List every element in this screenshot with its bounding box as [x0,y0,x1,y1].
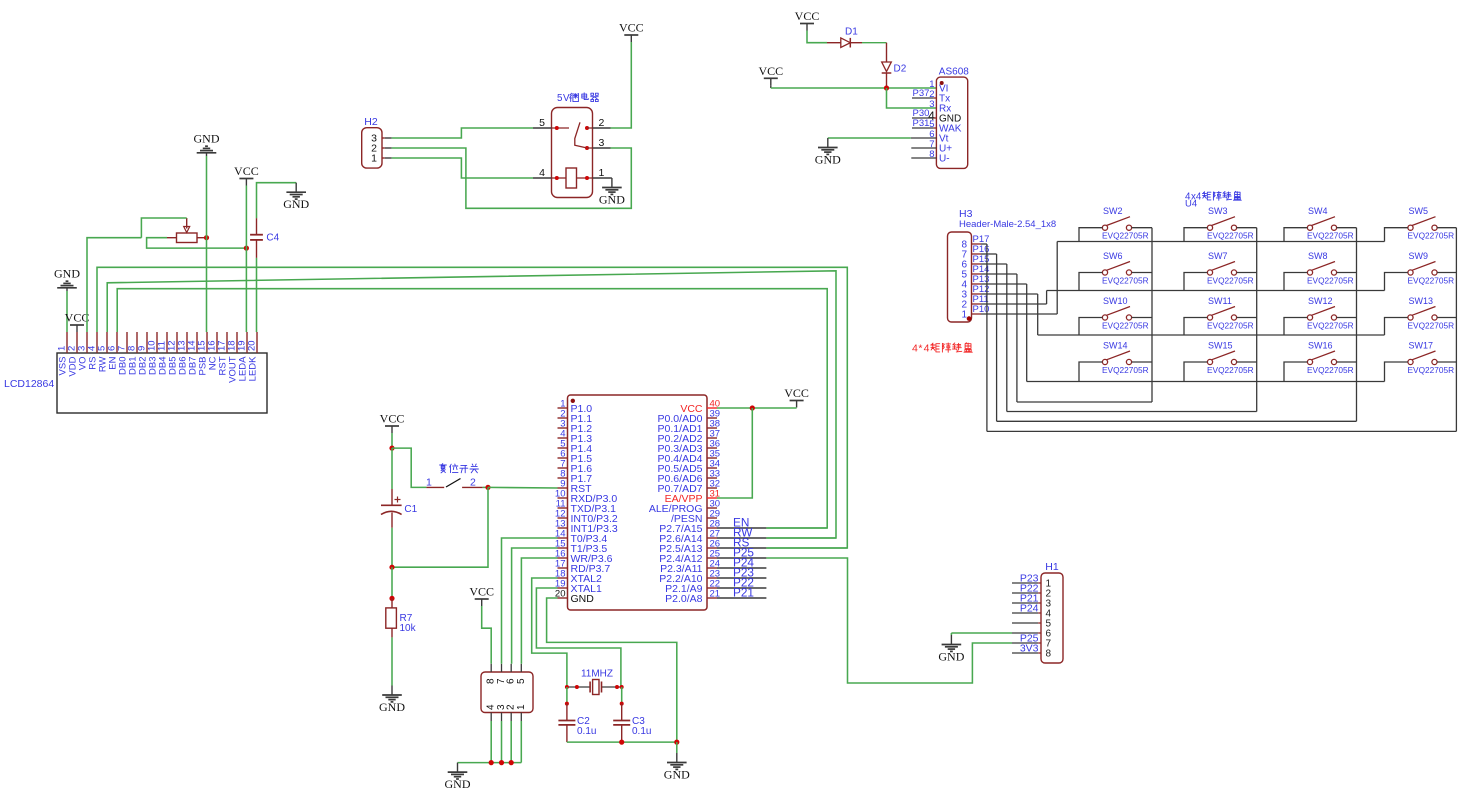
wire EN net (LCD pin6 to MCU P2.7) [117,289,827,528]
wire RS vertical [766,547,847,549]
svg-text:D2: D2 [894,64,907,75]
LCD pin 20 LEDK stub [256,332,258,353]
wire VCC to AS608 pin1 VI [770,85,772,88]
power VCC (header pin8) [481,599,483,606]
svg-text:EVQ22705R: EVQ22705R [1102,321,1149,331]
wire VCC to header pin8 [482,606,492,664]
MCU pin 22 P2.1/A9 stub [707,587,717,589]
svg-text:Header-Male-2.54_1x8: Header-Male-2.54_1x8 [959,219,1056,230]
wire wiper to LCD pin3 VO [87,238,141,332]
svg-text:EVQ22705R: EVQ22705R [1207,321,1254,331]
svg-text:SW10: SW10 [1103,296,1128,306]
relay coil [566,168,577,188]
MCU pin 15 T1/P3.5 stub [558,547,568,549]
wire D2 cathode to VI net [886,73,888,88]
svg-text:GND: GND [283,197,309,211]
wire Vt to GND [828,137,911,139]
wire P16 stair [981,253,997,255]
svg-text:H2: H2 [364,116,378,128]
svg-text:SW6: SW6 [1103,251,1123,261]
LCD pin 8 DB1 stub [136,332,138,353]
AS608 pin6 stub Vt [911,137,937,139]
wire P25 net to H1 pin7 [766,558,1012,683]
AS608 pin5 stub + net label P31 [912,127,934,129]
MCU pin 29 /PESN stub [707,517,717,519]
svg-text:GND: GND [815,152,841,166]
svg-text:EVQ22705R: EVQ22705R [1207,276,1254,286]
H1 pin 3 stub [1012,602,1038,604]
column bus verticals [1151,228,1153,402]
header top pin 6 stub [510,664,512,672]
MCU pin 25 P2.4/A12 stub [707,557,717,559]
wires header bottom pins to GND [490,721,492,763]
LCD12864 module U? body [57,353,267,413]
svg-text:2: 2 [599,117,605,129]
MCU pin 27 P2.6/A14 stub [707,537,717,539]
MCU pin 26 P2.5/A13 stub [707,547,717,549]
wire VCC to diode D1 [807,31,827,43]
wire SW10 right to column bus [1132,317,1152,319]
switch SW11 [1207,315,1212,320]
wire P17 to col4 [986,244,988,431]
svg-text:3: 3 [599,137,605,149]
svg-text:VCC: VCC [234,164,259,178]
switch SW8 [1307,270,1312,275]
svg-text:SW8: SW8 [1308,251,1328,261]
LCD pin 2 VDD stub [76,332,78,353]
LCD pin 1 VSS stub [66,332,68,353]
diode D1 [841,38,851,48]
wire H2.1 to relay pin4 [392,158,533,178]
H3 pin 1 stub [972,313,982,315]
H1 pin 6 stub [1012,632,1038,634]
MCU net stub P21 [717,597,766,599]
wire down to R7 [391,567,393,598]
wire P10 stair [981,313,1057,315]
svg-text:EVQ22705R: EVQ22705R [1207,231,1254,241]
svg-text:GND: GND [54,266,80,280]
svg-text:11MHZ: 11MHZ [581,669,613,680]
MCU pin 30 ALE/PROG stub [707,507,717,509]
power VCC (pin2 VDD) [76,325,78,332]
wire VCC to LCD pin19 LEDA [245,186,247,333]
wire RST junction down to R7/C1 node [392,487,488,567]
C1 bottom lead [391,513,393,528]
H3 pin 2 stub [972,303,982,305]
wire SW11 right to column bus [1237,317,1257,319]
wire P14 to col1 [1016,274,1018,402]
MCU pin 7 P1.6 stub [558,467,568,469]
svg-text:5: 5 [516,678,527,684]
svg-text:SW2: SW2 [1103,206,1123,216]
header top pin 7 stub [501,664,503,672]
column bottom wires [1017,401,1152,403]
svg-text:SW15: SW15 [1208,341,1233,351]
junction C1/R7 [389,565,394,570]
svg-text:EVQ22705R: EVQ22705R [1307,321,1354,331]
svg-text:VCC: VCC [758,64,783,78]
wire SW6 left to row bus [1079,273,1102,291]
svg-text:SW5: SW5 [1409,206,1429,216]
wire SW8 right to column bus [1337,272,1357,274]
wire P14 stair [981,273,1017,275]
ground GND (R7) [391,686,393,696]
svg-text:VCC: VCC [380,412,405,426]
svg-text:GND: GND [599,192,625,206]
svg-text:VCC: VCC [65,311,90,325]
svg-text:C1: C1 [404,504,417,515]
AS608 pin7 stub [911,147,936,149]
H3 pin 5 stub [972,273,982,275]
MCU net stub RW [717,537,766,539]
svg-text:1: 1 [961,310,967,321]
svg-text:V: V [563,93,570,104]
wire RS net (LCD pin4 to MCU P2.6) [97,267,847,548]
H3 pin 8 stub [972,243,982,245]
wire pot left to VCC net [147,238,247,248]
power VCC (MCU pin40) [796,401,798,408]
svg-text:1: 1 [516,704,527,710]
wire VCC down to C1 [391,433,393,448]
LCD pin 18 VOUT stub [236,332,238,353]
LCD pin 12 DB5 stub [176,332,178,353]
svg-text:SW14: SW14 [1103,341,1128,351]
wire R7 to GND [391,637,393,685]
junction header gnd pins [489,760,494,765]
wire XTAL2 to crystal left [532,578,567,687]
svg-text:P2.0/A8: P2.0/A8 [665,593,703,605]
wire to reset switch [392,448,426,487]
wire caps gnd bus [567,741,677,743]
relay pin 1 stub [593,177,611,179]
svg-text:D1: D1 [845,27,858,38]
LCD pin 13 DB6 stub [186,332,188,353]
svg-text:0.1u: 0.1u [577,726,596,737]
wire MCU GND pin20 [547,598,677,742]
wire EN vertical [766,527,827,529]
svg-text:GND: GND [194,131,220,145]
svg-text:SW4: SW4 [1308,206,1328,216]
H2 pin 3 stub [382,137,385,139]
wire P15 to col2 [1006,264,1008,412]
wire SW13 left to row bus [1385,318,1408,336]
resistor R7 [391,598,393,608]
switch pin1 lead [426,486,444,488]
MCU pin 34 P0.5/AD5 stub [707,467,717,469]
header bottom pin 3 stub [501,713,503,722]
svg-text:U4: U4 [1185,199,1197,210]
wire P17 stair [981,243,987,245]
pot right lead [197,237,207,239]
svg-text:P37: P37 [913,88,930,99]
relay pin 4 stub [533,177,552,179]
svg-text:GND: GND [938,649,964,663]
svg-text:10k: 10k [400,623,417,634]
LCD pin 5 RW stub [106,332,108,353]
relay pin 3 stub [593,147,611,149]
MCU pin 2 P1.1 stub [558,417,568,419]
H1 pin 4 stub [1012,612,1038,614]
switch SW9 [1408,270,1413,275]
power VCC (reset) [391,426,393,433]
wire WR to header pin5 [521,558,557,664]
wire SW6 right to column bus [1132,272,1152,274]
svg-text:GND: GND [571,593,595,605]
MCU pin 4 P1.3 stub [558,437,568,439]
svg-text:EVQ22705R: EVQ22705R [1307,365,1354,375]
switch SW15 [1207,359,1212,364]
wire SW5 left to row bus [1385,228,1408,242]
svg-text:EVQ22705R: EVQ22705R [1102,276,1149,286]
LCD pin 4 RS stub [96,332,98,353]
MCU net stub P22 [717,587,766,589]
diode D2 [882,62,892,72]
svg-text:SW17: SW17 [1409,341,1434,351]
svg-text:4: 4 [539,167,545,179]
wire SW10 left to row bus [1079,318,1102,336]
switch blade [446,479,461,488]
wire P16 to col3 [996,254,998,421]
MCU net stub EN [717,527,766,529]
wire P12 to row bus 3 [1037,294,1039,335]
svg-text:SW9: SW9 [1409,251,1429,261]
MCU pin 33 P0.6/AD6 stub [707,477,717,479]
capacitor C3 0.1u [621,704,623,720]
MCU net stub P24 [717,567,766,569]
wire SW7 left to row bus [1184,273,1207,291]
junction pot right / PSB-GND line [204,235,209,240]
wire RW net (LCD pin5 to MCU P2.7) slightly sloped [107,271,836,538]
MCU pin 12 INT0/P3.2 stub [558,517,568,519]
MCU pin 16 WR/P3.6 stub [558,557,568,559]
wire SW14 left to row bus [1079,362,1102,382]
svg-text:GND: GND [664,767,690,781]
svg-text:SW7: SW7 [1208,251,1228,261]
relay K1 body (5V relay) [552,108,593,198]
capacitor C2 0.1u [566,704,568,720]
MCU pin 3 P1.2 stub [558,427,568,429]
svg-text:GND: GND [445,777,471,791]
header H3 body [948,232,972,322]
wire H1 pin6 to GND [951,632,1012,634]
wire P13 to row bus 4 [1026,284,1028,382]
capacitor C4 top wire to GND [257,183,297,219]
wire SW4 left to row bus [1284,228,1307,242]
LCD pin 19 LEDA stub [246,332,248,353]
LCD pin 9 DB2 stub [146,332,148,353]
wire SW12 right to column bus [1337,317,1357,319]
power VCC (LEDA net) [245,179,247,186]
svg-text:VCC: VCC [469,585,494,599]
svg-text:VCC: VCC [795,9,820,23]
wire SW2 left to row bus [1079,228,1102,242]
switch SW4 [1307,225,1312,230]
switch SW3 [1207,225,1212,230]
LCD pin 14 DB7 stub [196,332,198,353]
MCU net stub P25 [717,557,766,559]
reset switch S1 (label Chinese) [440,464,447,473]
wire SW8 left to row bus [1284,273,1307,291]
LCD pin 3 VO stub [86,332,88,353]
MCU pin1 marker dot [571,399,575,403]
wire SW3 left to row bus [1184,228,1207,242]
switch SW16 [1307,359,1312,364]
ground GND (header) [457,763,459,773]
wire SW12 left to row bus [1284,318,1307,336]
wire VSS to GND [66,291,68,332]
wire RW vertical [766,537,836,539]
svg-text:SW3: SW3 [1208,206,1228,216]
LCD pin 11 DB4 stub [166,332,168,353]
LCD pin 7 DB0 stub [126,332,128,353]
junction gnd bus [674,740,679,745]
ground GND (PSB line top) [206,153,208,156]
svg-text:EVQ22705R: EVQ22705R [1207,365,1254,375]
svg-text:GND: GND [379,700,405,714]
svg-text:SW11: SW11 [1208,296,1232,306]
ground GND (pin1 VSS) [66,288,68,291]
wire SW4 right to column bus [1337,227,1357,229]
switch SW5 [1408,225,1413,230]
MCU pin 24 P2.3/A11 stub [707,567,717,569]
H1 pin 7 stub [1012,642,1038,644]
header top pin 8 stub [490,664,492,672]
switch SW13 [1408,315,1413,320]
AS608 pin1 marker dot [940,81,944,85]
LCD pin 6 EN stub [116,332,118,353]
wire SW14 right to column bus [1132,361,1152,363]
switch SW14 [1102,359,1107,364]
svg-text:C4: C4 [266,233,279,244]
svg-text:EVQ22705R: EVQ22705R [1102,365,1149,375]
junction VCC/EA [750,405,755,410]
svg-text:EVQ22705R: EVQ22705R [1408,365,1455,375]
svg-text:4: 4 [924,343,930,355]
electrolytic capacitor C1 [391,448,393,489]
potentiometer wiper arrow [186,218,188,229]
power VCC (relay pin2) [630,35,632,42]
wire P13 stair [981,283,1027,285]
wire SW11 left to row bus [1184,318,1207,336]
wire C4 to LCD pin20 LEDK [256,258,258,332]
svg-text:P31: P31 [913,118,930,129]
svg-text:LCD12864: LCD12864 [4,378,54,390]
svg-text:4: 4 [912,343,918,355]
wire SW15 left to row bus [1184,362,1207,382]
relay pin 2 stub [593,127,611,129]
MCU pin 13 INT1/P3.3 stub [558,527,568,529]
MCU pin 10 RXD/P3.0 stub [558,497,568,499]
svg-text:3V3: 3V3 [1020,643,1039,655]
MCU pin 19 XTAL1 stub [558,587,568,589]
wire P11 stair [981,303,1047,305]
MCU pin 11 TXD/P3.1 stub [558,507,568,509]
header top pin 5 stub [520,664,522,672]
C1 plus sign [395,499,401,501]
wire SW13 right to column bus [1437,317,1456,319]
svg-text:*: * [918,343,922,355]
AS608 pin8 stub [911,157,936,159]
junction pot-left/VCC [244,246,249,251]
svg-text:LEDK: LEDK [248,356,259,381]
ground GND (relay pin1) [611,177,612,179]
MCU pin 36 P0.3/AD3 stub [707,447,717,449]
wire GND down to LCD pin15 PSB [206,156,208,332]
wire to GND symbol [676,742,678,753]
wire H2.2 to relay pin3 [392,148,632,208]
wire SW15 right to column bus [1237,361,1257,363]
MCU pin 5 P1.4 stub [558,447,568,449]
switch SW10 [1102,315,1107,320]
svg-text:0.1u: 0.1u [632,726,651,737]
LCD pin 16 NC stub [216,332,218,353]
svg-text:EVQ22705R: EVQ22705R [1102,231,1149,241]
svg-text:EVQ22705R: EVQ22705R [1408,321,1455,331]
wire P10 up to row bus 1 [1056,242,1058,315]
MCU pin 38 P0.1/AD1 stub [707,427,717,429]
wire SW17 left to row bus [1385,362,1408,382]
ground GND (C4) [295,183,297,193]
wire XTAL1 to crystal right [536,588,621,687]
svg-text:EVQ22705R: EVQ22705R [1408,231,1455,241]
AS608 pin2 stub + net label P37 [912,97,934,99]
relay pin 5 stub [533,127,552,129]
switch pin2 lead [462,486,483,488]
AS608 pin4 stub + net label P30 [912,117,934,119]
ground GND (H1) [950,635,952,645]
header bottom pin 4 stub [490,713,492,722]
junction RST [485,485,490,490]
switch SW6 [1102,270,1107,275]
svg-text:EVQ22705R: EVQ22705R [1307,276,1354,286]
contrast potentiometer RP body [177,233,198,243]
wire SW9 left to row bus [1385,273,1408,291]
wire P12 stair [981,293,1038,295]
header H2 body [362,128,382,168]
switch SW7 [1207,270,1212,275]
header bottom pin 2 stub [510,713,512,722]
H3 pin 7 stub [972,253,982,255]
svg-text:8: 8 [1046,649,1052,660]
wire relay pin2 to VCC [611,42,632,128]
wire P15 stair [981,263,1007,265]
wire SW5 right to column bus [1437,227,1456,229]
MCU pin 1 P1.0 stub [558,407,568,409]
MCU pin 17 RD/P3.7 stub [558,567,568,569]
svg-text:1: 1 [599,167,605,179]
MCU pin 28 P2.7/A15 stub [707,527,717,529]
wire T0 to header pin7 [502,538,558,664]
programming header body [481,672,533,713]
wire to AS608 pin3 Rx [887,88,937,108]
MCU net stub RS [717,547,766,549]
wire SW3 right to column bus [1237,227,1257,229]
wire MCU VCC pin40 [717,407,797,409]
switch SW17 [1408,359,1413,364]
svg-text:2: 2 [470,477,476,489]
MCU U1 body (8051) [568,395,708,610]
MCU pin 21 P2.0/A8 stub [707,597,717,599]
svg-text:1: 1 [371,153,377,165]
row bus wires [1057,241,1384,243]
MCU net stub P23 [717,577,766,579]
H1 pin 5 stub [1012,622,1038,624]
H3 pin1 marker dot [967,316,972,321]
wire crystal right to C3 [621,687,623,704]
svg-text:AS608: AS608 [939,67,969,78]
MCU pin 9 RST stub [558,487,568,489]
pot left lead [167,237,177,239]
